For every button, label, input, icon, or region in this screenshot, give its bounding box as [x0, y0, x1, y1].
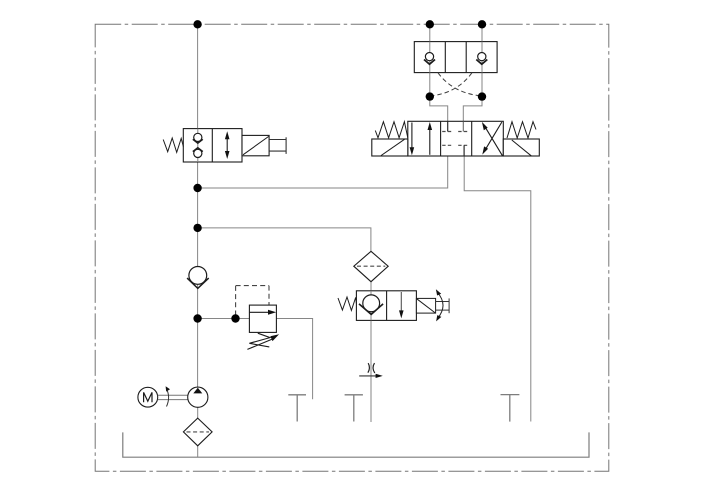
wire: T-port line to tank: [464, 156, 531, 422]
check poppet left: [424, 53, 435, 65]
wire: main pressure line vertical: [197, 24, 199, 387]
pilot operated check valve block U2: [414, 42, 497, 73]
U1 spring: [163, 138, 183, 152]
tank symbol T1: [288, 395, 306, 422]
junction node pilot B: [478, 92, 486, 100]
motor M1: [138, 387, 158, 407]
U4 check poppet: [359, 295, 383, 315]
directional valve U3 body: [408, 121, 504, 156]
wire: left pilot to valve A port: [430, 97, 448, 122]
inline filter F1: [354, 251, 388, 281]
U3 right spring: [507, 122, 536, 138]
U4 connector plug: [436, 298, 450, 313]
U3 right position crossed arrows: [482, 122, 503, 156]
junction node relief branch: [193, 314, 201, 322]
pump P1: [188, 387, 208, 407]
U4 right position arrow: [399, 292, 404, 318]
junction node pilot A: [426, 92, 434, 100]
junction node on border top main: [193, 20, 201, 28]
U1 right position double arrow: [225, 131, 230, 159]
wire: relief outlet to tank: [276, 319, 312, 400]
wire: P-port line to main: [198, 156, 448, 188]
pilot line cross right-to-left (dashed): [433, 73, 472, 96]
junction node P branch: [193, 184, 201, 192]
U3 left position arrows: [410, 122, 433, 155]
wire: filter to tank line: [197, 446, 199, 457]
wire: right pilot to valve B port: [463, 97, 482, 122]
wire: branch to inline filter: [198, 228, 371, 251]
pilot line cross left-to-right (dashed): [438, 73, 479, 96]
junction node filter branch: [193, 224, 201, 232]
wire: middle valve drop line: [370, 282, 372, 422]
tank symbol T3: [501, 395, 520, 422]
suction filter F2: [183, 418, 212, 446]
relief valve RV1 body: [249, 305, 276, 332]
U4 solenoid: [416, 298, 435, 313]
check valve V1 on main line: [187, 267, 209, 289]
junction node border A: [426, 20, 434, 28]
shaft: [158, 395, 188, 399]
U3 centre position blocked ports: [442, 121, 469, 156]
U3 left solenoid: [372, 139, 408, 156]
tank frame: [123, 432, 589, 457]
tank symbol T2: [345, 395, 363, 422]
U1 connector plug: [269, 137, 286, 154]
U3 right solenoid: [503, 139, 539, 156]
relief valve RV1 pilot dashes: [236, 286, 269, 316]
junction node relief pilot: [231, 314, 239, 322]
U3 left spring: [375, 122, 408, 138]
wire: relief branch: [198, 318, 250, 320]
wire: pump suction to filter: [197, 407, 199, 418]
U4 rotary arrow: [436, 289, 443, 321]
U1 solenoid: [242, 135, 269, 155]
enclosure border (dash-dot): [95, 24, 609, 471]
junction node border B: [478, 20, 486, 28]
rotation arrow: [166, 386, 170, 406]
valve U4 (2/2 check unload) body: [356, 291, 416, 321]
throttle TH1: [359, 363, 383, 378]
check poppet right: [476, 53, 487, 65]
solenoid valve U1 (2/2 with dual checks): [183, 129, 242, 162]
U1 check top: [193, 133, 203, 143]
RV1 spring and adjuster: [247, 333, 279, 349]
U4 spring: [338, 297, 356, 310]
wire: pilot check left leg: [429, 24, 431, 96]
U1 check bottom: [193, 148, 203, 158]
wire: pilot check right leg: [481, 24, 483, 96]
